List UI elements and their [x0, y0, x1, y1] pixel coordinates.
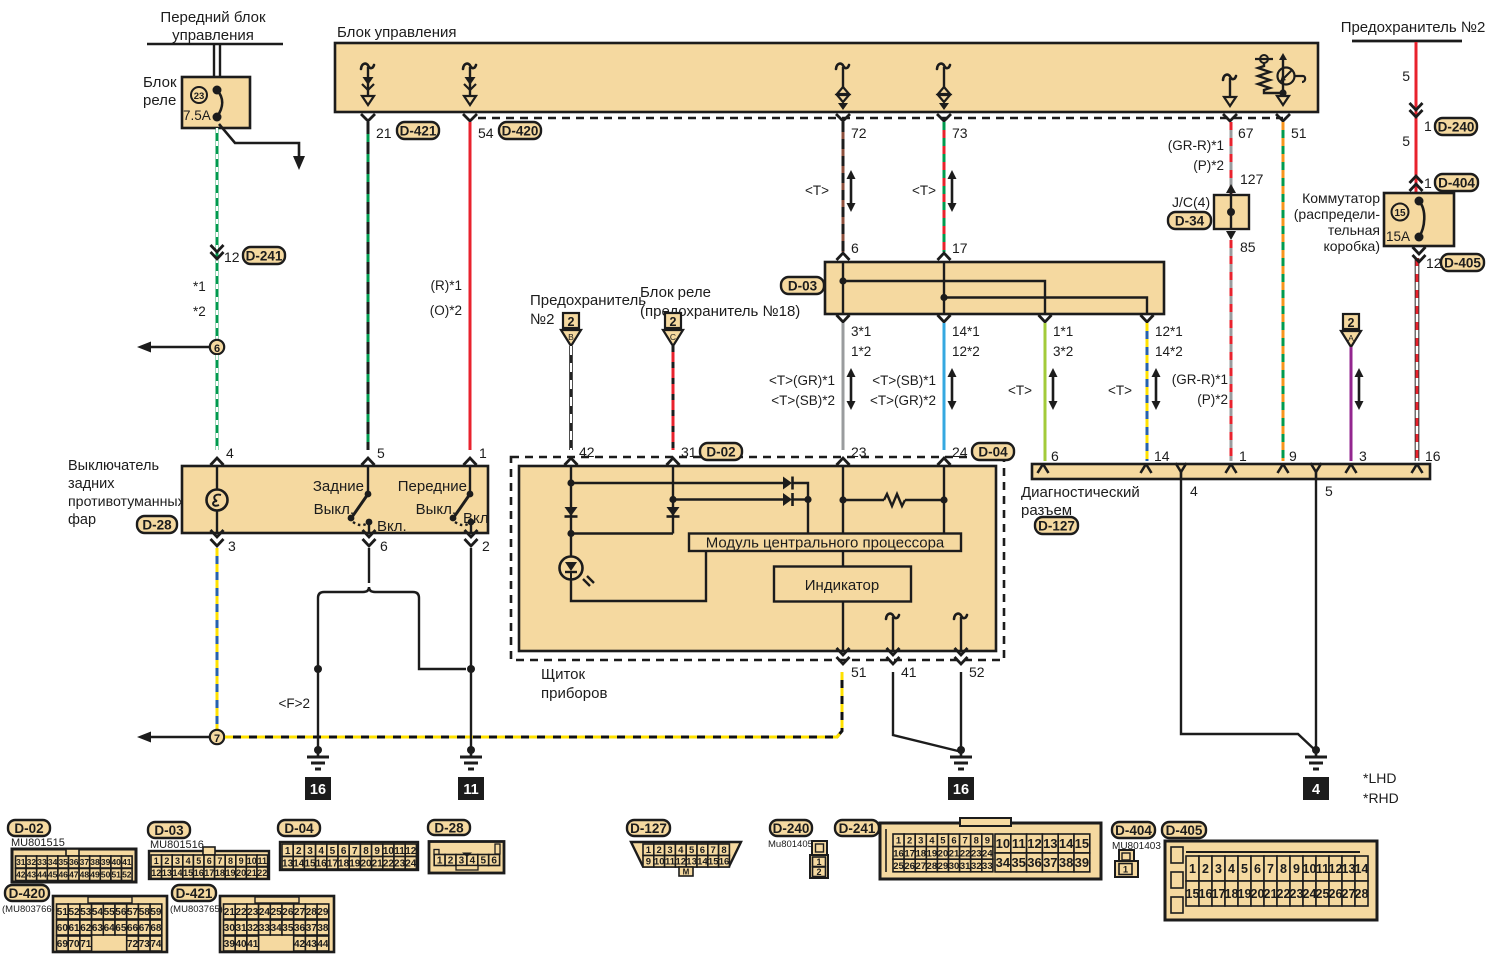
svg-text:48: 48	[80, 870, 90, 880]
svg-text:Блок управления: Блок управления	[337, 24, 456, 41]
label T and arrow for wire 73	[912, 170, 957, 212]
driver symbol above pin 67	[1223, 75, 1236, 106]
wire: diag pin 5 to ground	[1315, 479, 1317, 748]
svg-text:25: 25	[271, 907, 283, 918]
pin 73	[937, 114, 968, 141]
wire: triangle A to diag pin 3 (purple)	[1351, 347, 1364, 461]
svg-text:41: 41	[901, 664, 917, 680]
driver symbol above pin 21	[361, 64, 374, 105]
svg-text:34: 34	[48, 857, 58, 867]
svg-text:D-240: D-240	[1438, 119, 1475, 134]
ground symbol 16 left	[305, 746, 331, 800]
svg-text:1: 1	[437, 856, 443, 867]
wire option labels *1 *2	[193, 279, 206, 319]
svg-text:6: 6	[380, 538, 388, 554]
svg-text:44: 44	[37, 870, 47, 880]
svg-text:74: 74	[150, 939, 162, 950]
instrument cluster body	[519, 466, 996, 651]
svg-text:2: 2	[164, 856, 169, 866]
labels LHD RHD	[1363, 770, 1399, 806]
label T and arrow for wire 72	[805, 170, 856, 212]
svg-text:20: 20	[938, 848, 949, 859]
svg-text:33: 33	[982, 861, 993, 872]
svg-text:D-02: D-02	[706, 444, 735, 459]
svg-text:1*2: 1*2	[851, 344, 871, 359]
svg-text:32: 32	[971, 861, 982, 872]
svg-text:Mu801405: Mu801405	[768, 839, 813, 850]
pin 72	[836, 114, 867, 141]
label T for light green wire	[1008, 368, 1058, 410]
internal resistor and opto-transistor above pin 51	[1255, 53, 1305, 105]
svg-text:5: 5	[689, 845, 695, 856]
svg-text:38: 38	[1059, 855, 1073, 870]
svg-text:46: 46	[58, 870, 68, 880]
CPU module box (Модуль центрального процессора)	[689, 534, 961, 552]
svg-text:4: 4	[226, 445, 234, 461]
labels (GR-R)*1 (P)*2 lower	[1172, 372, 1228, 407]
svg-text:72: 72	[851, 125, 867, 141]
svg-text:15: 15	[1075, 836, 1089, 851]
junction connector J/C(4) D-34	[1168, 171, 1264, 255]
wire: cluster pin 52 to ground	[960, 672, 962, 748]
connector diagram D-405	[1162, 822, 1377, 920]
svg-text:53: 53	[80, 907, 92, 918]
relay block box (Блок реле) with fuse 23 7.5A	[143, 74, 250, 128]
svg-text:D-241: D-241	[246, 248, 283, 263]
svg-text:8: 8	[363, 846, 369, 857]
labels (R)*1 (O)*2	[430, 278, 462, 318]
svg-text:17: 17	[204, 868, 214, 878]
svg-text:3: 3	[667, 845, 672, 856]
svg-text:21: 21	[224, 907, 236, 918]
svg-text:67: 67	[139, 923, 151, 934]
svg-text:1: 1	[1424, 118, 1432, 134]
svg-text:28: 28	[306, 907, 318, 918]
wire: pin 67 to junction D-34 (gray-red)	[1230, 122, 1233, 195]
svg-text:55: 55	[104, 907, 116, 918]
svg-text:14: 14	[1154, 448, 1170, 464]
svg-text:18: 18	[915, 848, 926, 859]
svg-text:43: 43	[306, 939, 318, 950]
switch pin labels top 4 5 1	[226, 445, 487, 461]
svg-text:2: 2	[816, 867, 821, 877]
svg-text:25: 25	[893, 861, 904, 872]
svg-text:3*2: 3*2	[1053, 344, 1073, 359]
svg-text:5: 5	[1402, 68, 1410, 84]
svg-text:39: 39	[1075, 855, 1089, 870]
svg-text:14*2: 14*2	[1155, 344, 1183, 359]
svg-text:67: 67	[1238, 125, 1254, 141]
svg-text:4: 4	[929, 836, 935, 847]
svg-text:36: 36	[69, 857, 79, 867]
svg-text:127: 127	[1240, 171, 1264, 187]
svg-text:15: 15	[183, 868, 193, 878]
left fork branch to ground 16	[314, 602, 322, 750]
svg-text:68: 68	[150, 923, 162, 934]
svg-text:69: 69	[57, 939, 69, 950]
svg-text:19: 19	[927, 848, 938, 859]
driver symbol above pin 73	[937, 64, 950, 110]
svg-text:11: 11	[665, 857, 676, 868]
D-03 exit arrows and pin labels	[837, 315, 1183, 359]
svg-text:31: 31	[16, 857, 26, 867]
svg-text:2: 2	[482, 538, 490, 554]
svg-text:22: 22	[383, 858, 395, 869]
svg-text:21: 21	[376, 125, 392, 141]
svg-text:(распредели-: (распредели-	[1294, 206, 1381, 222]
svg-text:37: 37	[80, 857, 90, 867]
connector diagram D-420	[2, 885, 167, 952]
svg-text:5: 5	[1325, 483, 1333, 499]
svg-text:17: 17	[327, 858, 339, 869]
svg-text:17: 17	[904, 848, 915, 859]
svg-text:43: 43	[27, 870, 37, 880]
svg-text:5: 5	[1241, 862, 1248, 876]
svg-text:23: 23	[394, 858, 406, 869]
svg-text:44: 44	[317, 939, 329, 950]
svg-text:D-28: D-28	[142, 517, 172, 532]
inline connector 1 D-240	[1410, 103, 1478, 135]
fuse No.2 source (Предохранитель №2) triangle B	[530, 292, 646, 346]
svg-text:3: 3	[918, 836, 923, 847]
svg-text:тельная: тельная	[1328, 222, 1380, 238]
junction node 6	[210, 340, 224, 355]
svg-text:J/C(4): J/C(4)	[1172, 194, 1210, 210]
svg-text:14: 14	[172, 868, 182, 878]
svg-text:8: 8	[228, 856, 233, 866]
ground symbol 11	[458, 746, 484, 800]
svg-text:22: 22	[235, 907, 247, 918]
svg-text:73: 73	[139, 939, 151, 950]
svg-text:51: 51	[851, 664, 867, 680]
svg-text:7: 7	[214, 733, 220, 745]
svg-text:Щиток: Щиток	[541, 666, 585, 683]
svg-text:(R)*1: (R)*1	[430, 278, 462, 293]
svg-text:16: 16	[1425, 448, 1441, 464]
svg-text:59: 59	[150, 907, 162, 918]
svg-text:Задние: Задние	[313, 478, 364, 495]
svg-text:18: 18	[215, 868, 225, 878]
svg-text:12*1: 12*1	[1155, 324, 1183, 339]
ground symbol 4	[1303, 746, 1329, 800]
svg-text:12: 12	[151, 868, 161, 878]
svg-text:(P)*2: (P)*2	[1193, 158, 1224, 173]
svg-text:22: 22	[960, 848, 971, 859]
connector diagram D-28	[428, 820, 504, 873]
svg-text:24: 24	[259, 907, 271, 918]
svg-text:49: 49	[90, 870, 100, 880]
svg-text:37: 37	[306, 923, 318, 934]
svg-text:№2: №2	[530, 311, 554, 328]
svg-text:41: 41	[247, 939, 259, 950]
inline connector 12 D-241 on green-white wire	[211, 245, 286, 265]
svg-text:Предохранитель №2: Предохранитель №2	[1341, 19, 1486, 36]
labels T(SB)*1 T(GR)*2	[870, 368, 957, 410]
svg-text:14: 14	[1355, 862, 1369, 876]
svg-text:1*1: 1*1	[1053, 324, 1073, 339]
svg-text:Вкл.: Вкл.	[377, 518, 407, 535]
svg-text:12*2: 12*2	[952, 344, 980, 359]
D-03 pin 6 label	[851, 240, 859, 256]
svg-text:11: 11	[1316, 862, 1329, 876]
wire: cluster pin 41 to ground	[893, 672, 958, 751]
svg-text:<F>2: <F>2	[278, 696, 310, 711]
svg-text:10: 10	[247, 856, 257, 866]
wire: D-03 to diag pin 14 (blue-yellow)	[1146, 323, 1149, 461]
svg-text:40: 40	[111, 857, 121, 867]
svg-text:52: 52	[68, 907, 80, 918]
svg-text:41: 41	[122, 857, 132, 867]
svg-text:6: 6	[341, 846, 347, 857]
svg-text:*2: *2	[193, 304, 206, 319]
svg-text:31: 31	[960, 861, 971, 872]
svg-text:14: 14	[293, 858, 305, 869]
svg-text:54: 54	[92, 907, 104, 918]
svg-text:1: 1	[1189, 862, 1196, 876]
svg-text:20: 20	[360, 858, 372, 869]
svg-text:2: 2	[657, 845, 662, 856]
svg-text:B: B	[568, 332, 574, 342]
svg-text:70: 70	[68, 939, 80, 950]
branch arrow right from fuse output	[219, 124, 305, 170]
diagnostic connector box (Диагностический разъем) D-127	[1021, 464, 1430, 534]
svg-text:27: 27	[294, 907, 306, 918]
connector diagram D-02	[8, 820, 136, 882]
svg-text:4: 4	[1228, 862, 1235, 876]
svg-text:(MU803765): (MU803765)	[170, 904, 223, 915]
driver symbol above pin 72	[836, 64, 849, 110]
svg-text:D-03: D-03	[154, 823, 184, 838]
svg-text:<T>(GR)*2: <T>(GR)*2	[870, 393, 936, 408]
svg-text:60: 60	[57, 923, 69, 934]
svg-text:D-404: D-404	[1438, 175, 1475, 190]
svg-text:D-127: D-127	[1038, 518, 1075, 533]
svg-text:34: 34	[996, 855, 1011, 870]
svg-text:29: 29	[938, 861, 949, 872]
svg-text:19: 19	[1238, 887, 1252, 901]
svg-text:38: 38	[317, 923, 329, 934]
svg-text:9: 9	[1289, 448, 1297, 464]
svg-text:9: 9	[239, 856, 244, 866]
pin 51	[1276, 114, 1307, 141]
svg-text:6: 6	[851, 240, 859, 256]
svg-text:2: 2	[568, 315, 575, 329]
connector diagram D-404	[1112, 822, 1161, 877]
svg-text:3: 3	[1359, 448, 1367, 464]
svg-text:40: 40	[235, 939, 247, 950]
svg-text:1: 1	[646, 845, 652, 856]
pin 54 D-420	[463, 114, 541, 141]
svg-text:3: 3	[228, 538, 236, 554]
D-03 pin 17 label	[952, 240, 968, 256]
svg-text:65: 65	[115, 923, 127, 934]
svg-text:18: 18	[1225, 887, 1239, 901]
svg-text:30: 30	[224, 923, 236, 934]
svg-text:D-28: D-28	[434, 820, 464, 835]
cluster pin labels 42 31 23 24	[579, 443, 1014, 460]
svg-text:13: 13	[1342, 862, 1356, 876]
svg-text:(GR-R)*1: (GR-R)*1	[1168, 138, 1224, 153]
svg-text:32: 32	[247, 923, 259, 934]
svg-text:(O)*2: (O)*2	[430, 303, 462, 318]
svg-text:Передние: Передние	[398, 478, 467, 495]
wire: pin 73 to D-03 pin 17 (red-green)	[938, 122, 951, 260]
pin 67	[1223, 114, 1254, 141]
svg-text:приборов: приборов	[541, 685, 607, 702]
arrow pointing left from node 6	[137, 342, 209, 353]
svg-text:(P)*2: (P)*2	[1197, 392, 1228, 407]
svg-text:16: 16	[953, 782, 969, 798]
svg-text:16: 16	[310, 782, 326, 798]
svg-text:5: 5	[940, 836, 946, 847]
switch pin exits bottom 3 6 2	[211, 530, 491, 554]
svg-text:M: M	[683, 868, 690, 877]
svg-text:15A: 15A	[1386, 229, 1410, 244]
svg-text:6: 6	[700, 845, 705, 856]
svg-text:52: 52	[122, 870, 132, 880]
svg-text:<T>: <T>	[1008, 383, 1032, 398]
cluster bottom pin arrows 51 41 52	[837, 648, 985, 680]
label F2	[278, 696, 310, 711]
svg-text:21: 21	[949, 848, 960, 859]
svg-text:D-34: D-34	[1175, 213, 1205, 228]
svg-text:51: 51	[1291, 125, 1307, 141]
svg-text:7: 7	[963, 836, 968, 847]
svg-text:66: 66	[127, 923, 139, 934]
svg-text:Выкл.: Выкл.	[314, 501, 354, 518]
svg-text:28: 28	[927, 861, 938, 872]
svg-text:12: 12	[1426, 255, 1442, 271]
svg-text:58: 58	[139, 907, 151, 918]
wire: fuse bus down (red) with label 5	[1402, 42, 1416, 246]
svg-text:1: 1	[1424, 175, 1432, 191]
svg-text:10: 10	[1303, 862, 1317, 876]
wire: D-34 to diag pin 1 (gray-red)	[1230, 240, 1233, 461]
switch unit box (Коммутатор распределительная коробка) with fuse 15 15A	[1294, 190, 1454, 254]
svg-text:28: 28	[1355, 887, 1369, 901]
svg-text:6: 6	[951, 836, 956, 847]
svg-text:11: 11	[394, 846, 405, 857]
svg-text:42: 42	[294, 939, 306, 950]
svg-text:24: 24	[952, 444, 968, 460]
svg-text:63: 63	[92, 923, 104, 934]
svg-text:25: 25	[1316, 887, 1330, 901]
svg-text:15: 15	[1394, 208, 1406, 219]
svg-text:<T>(SB)*1: <T>(SB)*1	[872, 373, 936, 388]
cluster LED indicator lamp	[560, 551, 707, 601]
svg-text:Блок: Блок	[143, 74, 177, 91]
wire: cluster pin 51 (black-yellow) down	[841, 672, 844, 731]
diag pins 4 5 going down	[1176, 463, 1334, 499]
wire: node 7 to cluster pin 51 (black-yellow dashed)	[225, 672, 842, 737]
svg-text:33: 33	[259, 923, 271, 934]
connector diagram D-240	[768, 820, 828, 878]
svg-text:<T>: <T>	[912, 183, 936, 198]
svg-text:9: 9	[1293, 862, 1300, 876]
svg-text:12: 12	[405, 846, 417, 857]
cluster internal: pin 31 branch	[571, 466, 812, 534]
svg-text:16: 16	[1199, 887, 1213, 901]
svg-text:4: 4	[186, 856, 191, 866]
svg-text:Коммутатор: Коммутатор	[1302, 190, 1380, 206]
svg-text:29: 29	[317, 907, 329, 918]
svg-text:7: 7	[217, 856, 222, 866]
svg-text:16: 16	[719, 857, 730, 868]
svg-text:Выкл.: Выкл.	[416, 501, 456, 518]
svg-text:4: 4	[1190, 483, 1198, 499]
svg-text:27: 27	[1342, 887, 1356, 901]
svg-text:39: 39	[224, 939, 236, 950]
wire: D-03 to cluster pin 24 (sky blue)	[938, 323, 951, 474]
svg-text:61: 61	[68, 923, 80, 934]
svg-text:47: 47	[69, 870, 79, 880]
svg-text:37: 37	[1043, 855, 1057, 870]
svg-text:MU801515: MU801515	[11, 837, 65, 849]
svg-text:34: 34	[271, 923, 283, 934]
connector diagram D-241	[835, 818, 1101, 879]
svg-text:13: 13	[282, 858, 294, 869]
svg-text:5: 5	[330, 846, 336, 857]
svg-text:6: 6	[491, 856, 497, 867]
svg-text:7: 7	[352, 846, 358, 857]
wire: D-03 to diag pin 6 (light green)	[1044, 323, 1047, 461]
svg-text:51: 51	[111, 870, 121, 880]
svg-text:6: 6	[214, 343, 220, 355]
svg-text:<T>(SB)*2: <T>(SB)*2	[771, 393, 835, 408]
svg-text:54: 54	[478, 125, 494, 141]
svg-text:39: 39	[101, 857, 111, 867]
wire: switch pin 2 to ground 11	[470, 548, 472, 750]
svg-text:13: 13	[686, 857, 697, 868]
svg-text:Блок реле: Блок реле	[640, 284, 711, 301]
svg-text:50: 50	[101, 870, 111, 880]
label T for blue-yellow wire	[1108, 368, 1161, 410]
svg-text:5: 5	[1402, 133, 1410, 149]
svg-text:35: 35	[282, 923, 294, 934]
ground symbol 16 right	[948, 746, 974, 800]
svg-text:8: 8	[721, 845, 726, 856]
svg-text:23: 23	[247, 907, 259, 918]
svg-text:7: 7	[711, 845, 716, 856]
svg-text:62: 62	[80, 923, 92, 934]
connector diagram D-03	[148, 822, 269, 879]
svg-text:Модуль центрального процессора: Модуль центрального процессора	[706, 535, 945, 552]
svg-text:*1: *1	[193, 279, 206, 294]
svg-text:24: 24	[982, 848, 993, 859]
svg-text:26: 26	[282, 907, 294, 918]
svg-text:фар: фар	[68, 512, 96, 528]
svg-text:3: 3	[1215, 862, 1222, 876]
svg-text:26: 26	[1329, 887, 1343, 901]
svg-text:реле: реле	[143, 92, 176, 109]
svg-text:13: 13	[162, 868, 172, 878]
svg-text:D-405: D-405	[1444, 255, 1481, 270]
svg-text:12: 12	[676, 857, 687, 868]
svg-text:D-404: D-404	[1115, 823, 1152, 838]
svg-text:14: 14	[1059, 836, 1074, 851]
svg-text:2: 2	[1348, 316, 1355, 330]
svg-text:D-03: D-03	[788, 278, 818, 293]
svg-text:27: 27	[915, 861, 926, 872]
pin 1 D-404 entering switch box	[1410, 174, 1479, 191]
cluster internal: pins 23 24 with resistor	[839, 466, 947, 533]
svg-text:MU801516: MU801516	[150, 839, 204, 851]
wire: fuse B to cluster pin 42 (black-white)	[565, 346, 578, 474]
svg-text:11: 11	[258, 856, 268, 866]
svg-text:22: 22	[1277, 887, 1291, 901]
svg-text:20: 20	[1251, 887, 1265, 901]
arrow pointing left from node 7	[137, 732, 209, 743]
